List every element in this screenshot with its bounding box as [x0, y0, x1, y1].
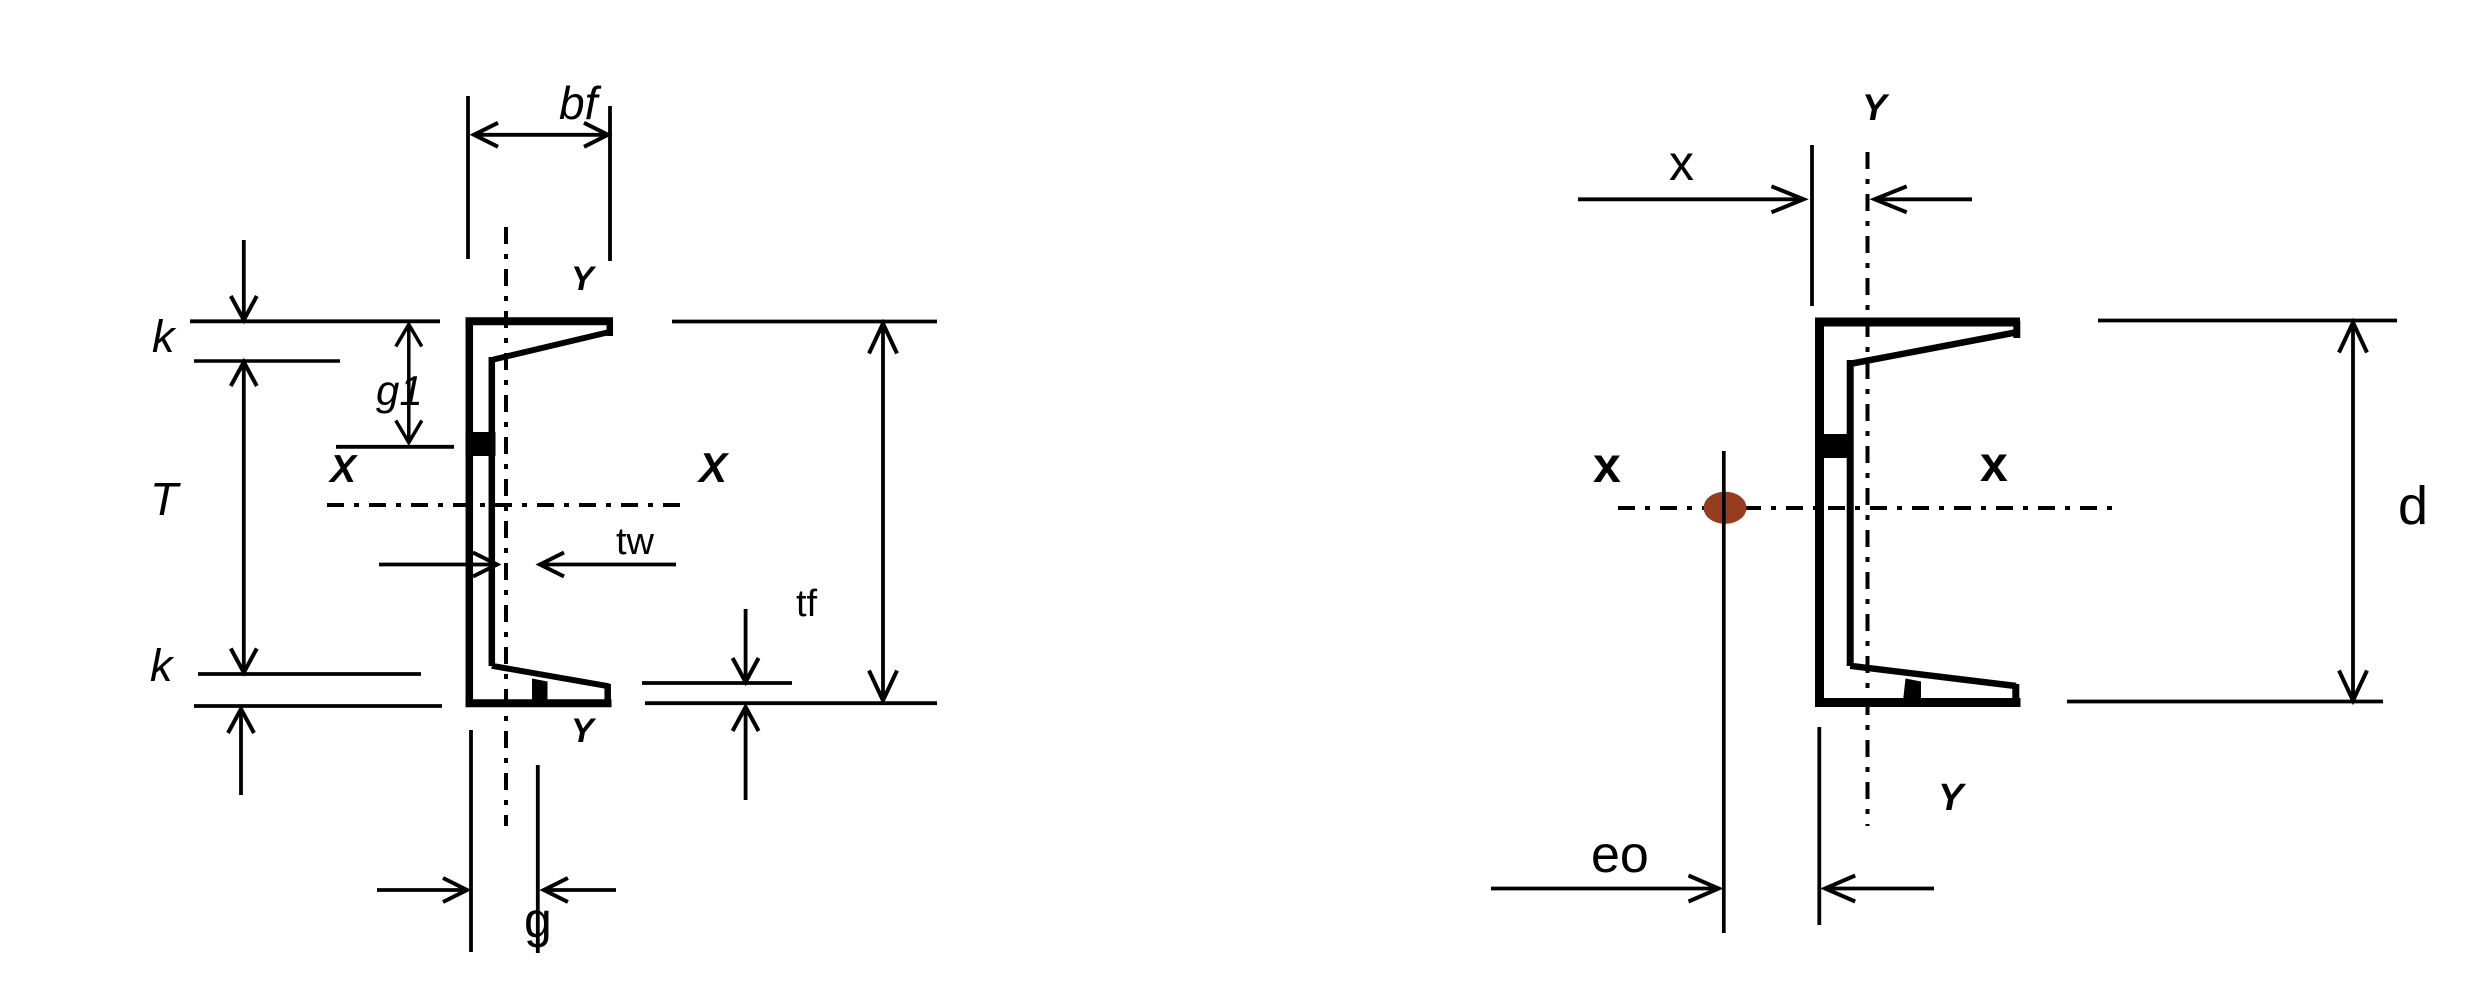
svg-text:X: X: [328, 448, 358, 491]
svg-text:x: x: [1593, 437, 1621, 493]
svg-text:tf: tf: [796, 583, 818, 625]
svg-text:tw: tw: [616, 521, 655, 563]
svg-text:Y: Y: [1862, 87, 1890, 128]
svg-text:k: k: [152, 311, 177, 362]
svg-text:Y: Y: [571, 712, 597, 750]
svg-text:k: k: [150, 640, 175, 691]
svg-text:Y: Y: [571, 260, 597, 298]
svg-text:x: x: [1980, 436, 2008, 492]
svg-text:g: g: [524, 892, 552, 948]
svg-text:T: T: [150, 473, 181, 525]
svg-text:g1: g1: [376, 367, 423, 414]
svg-text:eo: eo: [1591, 826, 1649, 884]
svg-text:bf: bf: [559, 77, 602, 129]
svg-text:x: x: [1669, 135, 1694, 191]
svg-text:Y: Y: [1938, 777, 1967, 819]
svg-text:d: d: [2398, 476, 2428, 536]
svg-text:X: X: [697, 444, 730, 491]
